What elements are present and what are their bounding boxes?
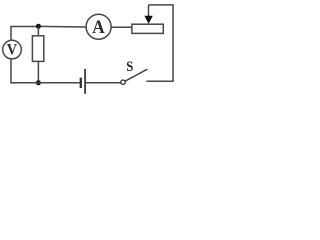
battery: long thin plate (positive) <box>84 69 86 94</box>
svg-text:A: A <box>92 17 105 38</box>
node: top junction dot <box>36 24 41 29</box>
voltmeter V <box>3 40 22 59</box>
wire: top rail to ammeter <box>38 25 86 28</box>
svg-text:S: S <box>126 59 133 75</box>
node: bottom junction dot <box>36 80 41 85</box>
wire: top rail left segment <box>10 26 38 28</box>
wire: top-left vertical (voltmeter to top rail) <box>10 27 12 41</box>
wire: bottom rail right (switch to right riser) <box>146 80 173 82</box>
ammeter A <box>86 14 111 39</box>
wire: bottom rail left (corner to battery) <box>10 82 80 84</box>
wire: voltmeter bottom to bottom rail <box>10 59 12 84</box>
wire: resistor R bottom to bottom junction <box>37 61 39 82</box>
resistor R (vertical box) <box>32 36 43 62</box>
wire: slider stem <box>148 5 150 17</box>
wire: junction to resistor R top <box>37 26 39 36</box>
switch S pivot contact <box>121 80 125 84</box>
svg-text:V: V <box>7 42 18 59</box>
switch S blade (open) <box>125 69 147 81</box>
rheostat slider arrowhead <box>144 16 152 24</box>
wire: ammeter to rheostat <box>111 26 132 28</box>
battery: short thick plate (negative) <box>80 78 82 88</box>
rheostat body (horizontal box) <box>132 24 163 33</box>
wire: right riser <box>172 5 174 81</box>
wire: top-right horizontal to slider <box>149 4 174 6</box>
wire: battery to switch <box>86 82 121 84</box>
